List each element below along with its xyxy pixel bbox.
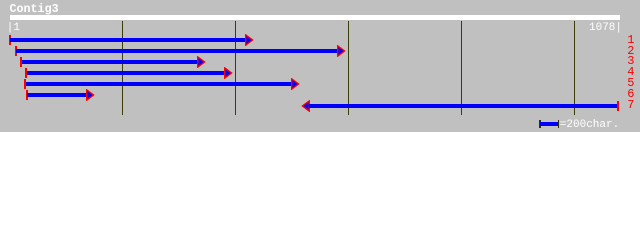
read 5 number — [627, 79, 634, 87]
read 2 start tick — [15, 46, 17, 56]
read 2 line — [16, 49, 338, 53]
read 2 arrowhead — [337, 45, 347, 57]
read 6 number — [627, 90, 634, 98]
gridline at 200 — [122, 21, 123, 115]
read 6 arrowhead — [86, 89, 96, 101]
read 3 start tick — [20, 57, 22, 67]
read 7 end tick — [617, 101, 619, 111]
contig title "Contig3" — [10, 5, 59, 14]
read 4 start tick — [25, 68, 27, 78]
gridline at 600 — [348, 21, 349, 115]
read 6 line — [27, 93, 87, 97]
read 4 number — [627, 68, 634, 76]
read 6 start tick — [26, 90, 28, 100]
read 7 arrowhead (points left) — [300, 100, 310, 112]
read 3 arrowhead — [197, 56, 207, 68]
read 1 number — [627, 36, 634, 44]
read 1 line — [10, 38, 246, 42]
gridline at 800 — [461, 21, 462, 115]
read 4 arrowhead — [224, 67, 234, 79]
gridline at 400 — [235, 21, 236, 115]
read 5 arrowhead — [291, 78, 301, 90]
read 5 line — [26, 82, 292, 86]
read 3 line — [22, 60, 199, 64]
legend right cap — [558, 120, 560, 129]
gridline at 1000 — [574, 21, 575, 115]
read 1 arrowhead — [245, 34, 255, 46]
read 1 start tick — [9, 35, 11, 45]
ruler right label 1078| — [589, 24, 622, 32]
legend left cap — [539, 120, 541, 129]
legend text "=200char." — [560, 121, 619, 129]
read 3 number — [627, 57, 634, 65]
read 7 number — [627, 101, 634, 109]
legend scale line — [540, 122, 558, 126]
read 2 number — [627, 47, 634, 55]
ruler bar (white band) — [10, 15, 620, 20]
read 5 start tick — [24, 79, 26, 89]
ruler left label |1 — [7, 24, 20, 32]
read 7 line — [309, 104, 617, 108]
read 4 line — [27, 71, 226, 75]
